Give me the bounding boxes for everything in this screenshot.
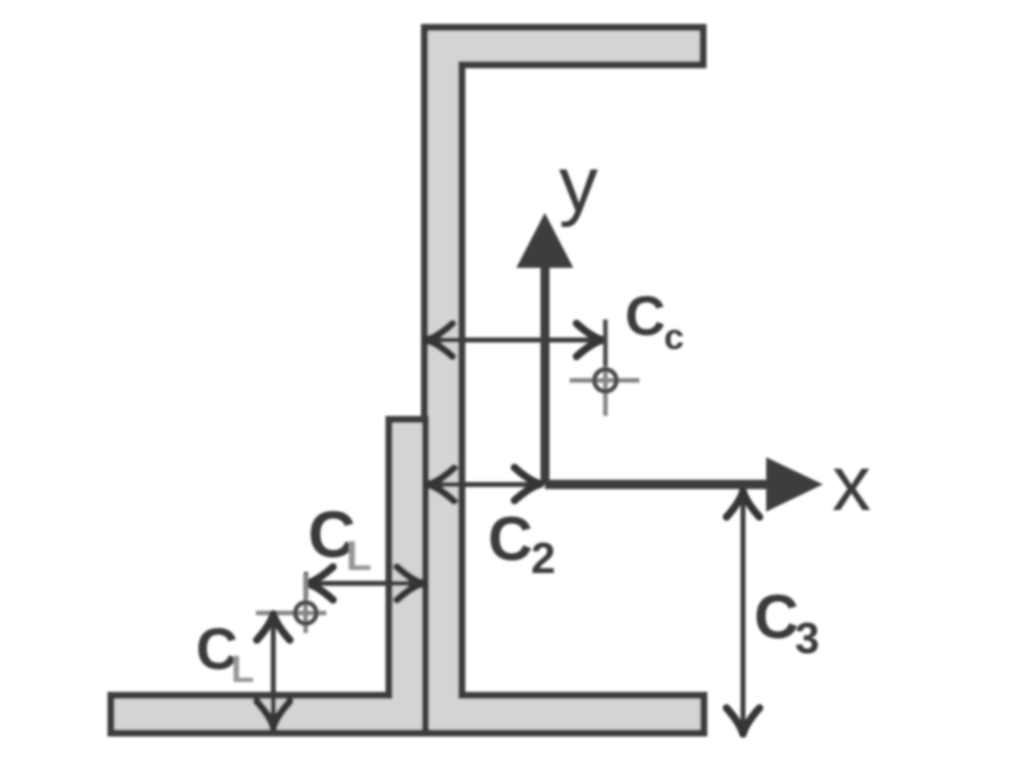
y-axis shaft xyxy=(541,262,550,484)
dimension CL vertical bottom arrowhead xyxy=(257,702,290,728)
channel centroid crosshair vertical xyxy=(603,366,608,416)
dimension C2 line xyxy=(428,482,541,487)
dimension C3 line xyxy=(741,491,746,734)
dimension CL vertical line xyxy=(271,615,276,727)
svg-text:c: c xyxy=(664,316,684,357)
angle centroid crosshair horizontal xyxy=(256,611,326,616)
channel centroid circle xyxy=(594,369,616,391)
svg-text:L: L xyxy=(231,649,254,691)
angle centroid crosshair vertical xyxy=(303,574,308,633)
dimension C2 left arrowhead xyxy=(428,468,454,501)
channel section C-shape xyxy=(425,28,704,734)
svg-text:y: y xyxy=(559,140,598,228)
dimension CL horizontal right arrowhead xyxy=(397,567,423,600)
svg-text:x: x xyxy=(832,439,871,527)
angle centroid circle xyxy=(295,603,316,624)
angle section L-shape xyxy=(111,420,426,734)
dimension CL tick xyxy=(304,572,309,598)
dimension Cc line xyxy=(427,338,604,343)
dimension Cc tick xyxy=(603,320,608,367)
svg-text:C: C xyxy=(754,583,799,652)
dimension C3 bottom arrowhead xyxy=(727,708,760,734)
dimension Cc right arrowhead xyxy=(577,324,603,357)
svg-text:C: C xyxy=(625,284,665,347)
x-axis shaft xyxy=(545,480,770,489)
dimension CL horizontal line xyxy=(307,581,423,586)
dimension Cc left arrowhead xyxy=(427,324,453,357)
svg-text:L: L xyxy=(346,532,372,579)
y-axis arrowhead xyxy=(516,213,573,268)
dimension C3 top arrowhead xyxy=(727,491,760,517)
dimension C2 right arrowhead xyxy=(515,468,541,501)
channel centroid crosshair horizontal xyxy=(570,378,640,383)
svg-text:3: 3 xyxy=(795,614,819,663)
svg-text:2: 2 xyxy=(531,534,555,583)
dimension CL vertical top arrowhead xyxy=(257,614,290,640)
svg-text:C: C xyxy=(488,505,533,574)
dimension CL horizontal left arrowhead xyxy=(307,567,333,600)
x-axis arrowhead xyxy=(766,457,823,511)
